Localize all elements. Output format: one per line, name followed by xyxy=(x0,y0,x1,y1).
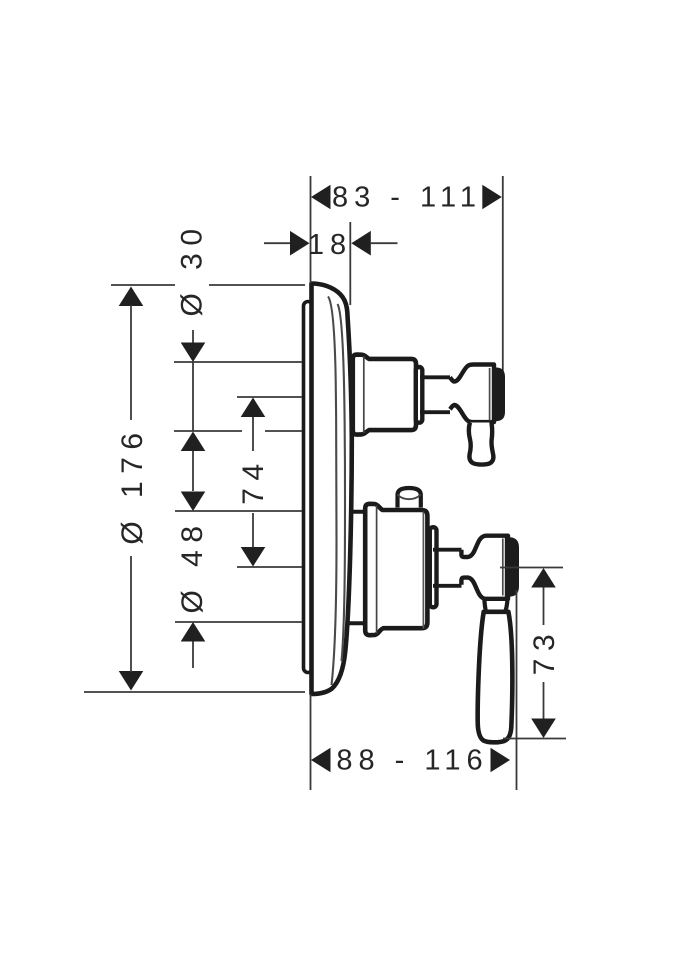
bottom button rim arc xyxy=(398,495,421,500)
arrowhead left of dim 88-116 xyxy=(311,748,331,773)
top sleeve front lip ring xyxy=(416,367,423,423)
extension line, right side of dim 88-116 xyxy=(516,590,518,790)
dim 73 line upper segment xyxy=(543,588,545,626)
top cross-handle hub xyxy=(450,365,494,423)
svg-text:18: 18 xyxy=(308,229,352,261)
dim 18 left arrowhead xyxy=(290,231,310,256)
dim D176 top reference line, right segment xyxy=(209,284,305,286)
svg-text:Ø 48: Ø 48 xyxy=(176,518,209,613)
dim 73 line lower segment xyxy=(543,682,545,719)
dim D176 bottom reference line xyxy=(84,691,305,693)
svg-text:83 - 111: 83 - 111 xyxy=(332,182,482,214)
top volume-control sleeve: collar and cylinder outline xyxy=(353,355,416,435)
extension line, right side of dim 18 xyxy=(349,222,351,305)
dim D48 lower arrowhead (pointing up) xyxy=(181,622,206,642)
dim D30 upper reference line xyxy=(174,361,302,363)
dim D48 upper arrowhead (pointing down) xyxy=(181,492,206,512)
bottom thermostat sleeve: collar and cylinder outline xyxy=(365,504,427,635)
dim D48 upper reference line xyxy=(175,510,302,512)
bottom lever handle grip xyxy=(478,612,513,743)
bottom cartridge top button xyxy=(398,488,421,508)
dim D30 lower reference line, right segment xyxy=(265,430,302,432)
escutcheon plate body (side profile) xyxy=(312,284,352,695)
dim 18 right tail line xyxy=(371,242,398,244)
escutcheon wall flange xyxy=(304,302,313,673)
dim 74 upper arrowhead xyxy=(241,398,266,418)
extension line, left side of dim 88-116 (below plate) xyxy=(310,694,312,790)
arrowhead left of dim 83-111 xyxy=(311,185,331,210)
dim 73 upper reference line xyxy=(500,567,563,569)
extension line, left side of dims 83-111 / 88-116 (upper part) xyxy=(310,176,312,283)
svg-text:74: 74 xyxy=(237,456,270,504)
top collar inner line xyxy=(363,356,365,433)
arrowhead right of dim 83-111 xyxy=(482,185,502,210)
bottom handle separation line xyxy=(502,539,504,596)
top handle stem lower line xyxy=(420,410,450,414)
dim D30 upper arrowhead (pointing down) xyxy=(181,343,206,363)
dim D30 lower arrowhead (pointing up) xyxy=(181,432,206,452)
dim 73 upper arrowhead xyxy=(531,568,556,588)
svg-text:88 - 116: 88 - 116 xyxy=(336,745,488,777)
bottom lever ferrule xyxy=(484,599,507,613)
dim D48 tail below lower arrowhead xyxy=(192,642,194,669)
bottom handle front cap (filled) xyxy=(505,537,519,596)
dim D176 bottom arrowhead xyxy=(119,671,144,691)
bottom handle stem lower line xyxy=(433,584,462,588)
dim 74 line lower segment xyxy=(252,513,254,547)
bottom sleeve front lip ring xyxy=(430,527,437,607)
dim 74 lower reference line xyxy=(237,566,302,568)
dim 74 upper reference line xyxy=(237,396,302,398)
dim 74 line upper segment xyxy=(252,417,254,451)
dim 74 lower arrowhead xyxy=(241,547,266,567)
dim D30 line between references xyxy=(192,362,194,431)
arrowhead right of dim 88-116 xyxy=(491,748,511,773)
dim 73 lower reference line xyxy=(503,738,566,740)
svg-text:Ø 176: Ø 176 xyxy=(116,425,149,544)
top handle lower spoke lever xyxy=(469,423,494,465)
top handle front cap (filled) xyxy=(493,368,506,422)
dim 73 lower arrowhead xyxy=(531,719,556,739)
bottom collar inner line xyxy=(376,506,378,634)
dim 18 right arrowhead xyxy=(351,231,371,256)
dim D30 leader from label xyxy=(192,330,194,350)
dim D176 line upper segment xyxy=(130,305,132,420)
extension line, right side of dim 83-111 (runs down to top handle cap) xyxy=(502,176,504,372)
escutcheon dome crease line B xyxy=(338,304,346,661)
dim D176 top arrowhead xyxy=(119,287,144,307)
bottom valve body hidden edge, upper stub xyxy=(350,510,367,514)
dim D48 lower reference line xyxy=(175,621,302,623)
dim 18 left tail line xyxy=(264,242,291,244)
dim line between D30 and D48 xyxy=(192,451,194,491)
escutcheon dome crease line A xyxy=(328,297,337,686)
top handle separation line xyxy=(489,368,491,421)
bottom valve body hidden edge, lower stub xyxy=(348,621,366,625)
svg-text:73: 73 xyxy=(528,627,561,675)
dim D30 lower reference line, left segment xyxy=(174,430,242,432)
dim D176 top reference line, left segment xyxy=(111,284,175,286)
top handle stem upper line xyxy=(420,375,450,379)
dim D176 line lower segment xyxy=(130,556,132,672)
svg-text:Ø 30: Ø 30 xyxy=(176,221,209,316)
bottom cylinder front inner line xyxy=(422,512,424,629)
bottom handle stem upper line xyxy=(433,548,462,552)
bottom lever-handle hub xyxy=(461,536,508,599)
